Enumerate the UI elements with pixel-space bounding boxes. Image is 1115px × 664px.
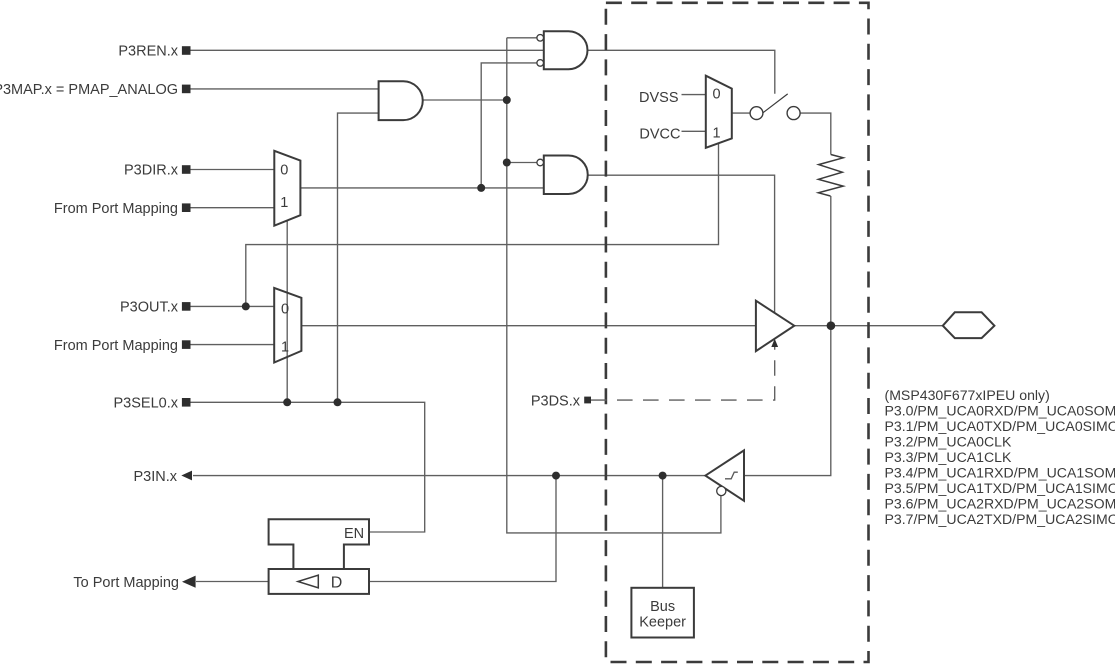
svg-text:P3MAP.x = PMAP_ANALOG: P3MAP.x = PMAP_ANALOG [0,82,178,98]
junction node A9 (P3IN / D latch) [552,472,560,480]
bubble U1 top input [537,35,544,42]
junction node A1 (AND2 out / bus) [503,96,511,104]
svg-text:1: 1 [281,339,289,355]
svg-text:From Port Mapping: From Port Mapping [54,338,178,354]
svg-text:1: 1 [713,125,721,141]
svg-text:P3.1/PM_UCA0TXD/PM_UCA0SIMO: P3.1/PM_UCA0TXD/PM_UCA0SIMO [885,418,1115,434]
terminal square From Port Mapping 1 [182,203,191,212]
wire P3OUT.x to mux M2 input 0 [191,305,275,307]
wire AND U1 bottom input from DIR line [481,63,537,188]
terminal square P3REN.x [182,46,191,55]
pin function text block [885,387,1115,527]
terminal square P3SEL0.x [182,398,191,407]
junction node A2 (bus / U3 input) [503,159,511,167]
terminal square P3OUT.x [182,302,191,311]
wire latch D output to port mapping [196,581,269,583]
wire From Port Mapping to mux M2 input 1 [191,344,275,346]
wire switch S1 to resistor R1 [800,113,831,154]
svg-text:0: 0 [281,301,289,317]
arrowhead To Port Mapping [182,576,196,588]
wire P3REN.x to AND U1 and output to switch control [191,50,775,93]
svg-text:P3.2/PM_UCA0CLK: P3.2/PM_UCA0CLK [885,433,1012,449]
mux M2 (P3OUT select) [274,288,301,363]
hysteresis symbol in U5 [725,472,738,479]
svg-text:P3OUT.x: P3OUT.x [120,300,179,316]
switch S1 lever [763,94,788,113]
wire AND U2 bottom input from P3SEL0 node [338,113,379,402]
wire DVSS to mux M3 input 0 [682,94,706,96]
terminal square P3DIR.x [182,165,191,174]
svg-text:P3.3/PM_UCA1CLK: P3.3/PM_UCA1CLK [885,449,1012,465]
mux M1 (P3DIR select) [274,151,300,226]
svg-text:P3.7/PM_UCA2TXD/PM_UCA2SIMO: P3.7/PM_UCA2TXD/PM_UCA2SIMO [885,511,1115,527]
latch L1 D section [269,569,369,594]
wire to bus keeper [662,476,664,588]
svg-text:P3.5/PM_UCA1TXD/PM_UCA1SIMO: P3.5/PM_UCA1TXD/PM_UCA1SIMO [885,480,1115,496]
bus keeper B1 [631,588,694,638]
wire select line from P3SEL0 node to mux M1 and M2 [286,220,288,402]
junction node A6 (P3SEL0 / U2 input) [334,398,342,406]
svg-text:P3DS.x: P3DS.x [531,394,581,410]
pad hexagon P1 [943,312,995,338]
wire mux M2 output to driver U4 [301,325,756,327]
svg-text:P3IN.x: P3IN.x [133,469,177,485]
svg-text:DVSS: DVSS [639,90,679,106]
wire From Port Mapping to mux M1 input 1 [191,207,275,209]
svg-text:P3.4/PM_UCA1RXD/PM_UCA1SOMI: P3.4/PM_UCA1RXD/PM_UCA1SOMI [885,464,1115,480]
switch S1 contact circle left [750,107,763,120]
svg-text:(MSP430F677xIPEU only): (MSP430F677xIPEU only) [885,387,1050,403]
wire resistor R1 to pad node and schmitt U5 input [744,196,831,476]
svg-text:0: 0 [280,162,288,178]
junction node A5 (P3SEL0 / M1 select) [283,398,291,406]
wire DVCC to mux M3 input 1 [682,130,706,132]
wire P3SEL0.x to latch EN input [191,402,425,532]
mux M3 (DVSS/DVCC select) [706,76,732,148]
wire AND U1 top input [507,37,537,39]
schmitt trigger U5 input buffer [705,450,744,500]
svg-text:P3.0/PM_UCA0RXD/PM_UCA0SOMI: P3.0/PM_UCA0RXD/PM_UCA0SOMI [885,402,1115,418]
and-gate U3 (direction, one inverted input) [544,156,588,195]
svg-text:Keeper: Keeper [639,615,686,631]
wire AND U3 output to driver enable [588,175,775,313]
wire P3DIR.x to mux M1 input 0 [191,169,275,171]
svg-text:P3.6/PM_UCA2RXD/PM_UCA2SOMI: P3.6/PM_UCA2RXD/PM_UCA2SOMI [885,495,1115,511]
junction node A3 (dir line) [477,184,485,192]
junction node A8 (P3IN / bus keeper) [659,472,667,480]
svg-text:P3SEL0.x: P3SEL0.x [114,396,179,412]
latch L1 clock triangle [298,575,318,588]
wire P3IN.x from schmitt U5 output [193,475,705,477]
wire node A vertical bus to schmitt enable bubble [507,38,721,533]
latch L1 EN section [269,519,369,569]
svg-text:EN: EN [344,526,364,542]
arrowhead P3IN.x [181,471,192,481]
terminal square From Port Mapping 2 [182,340,191,349]
junction node A4 (P3OUT feedback) [242,302,250,310]
wire driver U4 output to pad [794,325,943,327]
svg-text:0: 0 [713,86,721,102]
wire pad sense to latch D input [370,476,556,582]
svg-text:From Port Mapping: From Port Mapping [54,201,178,217]
wire P3MAP.x to AND U2 top input [191,88,379,90]
dashed wire P3DS.x to driver drive-strength input [591,347,775,400]
wire mux M1 output to AND U3 bottom input [300,187,543,189]
svg-text:D: D [331,575,343,592]
svg-text:P3DIR.x: P3DIR.x [124,163,179,179]
bubble U3 top input [537,159,544,166]
terminal square P3DS.x [584,397,591,404]
and-gate U1 (P3REN, two inverted inputs) [544,31,588,69]
arrowhead P3DS into driver U4 [771,339,778,347]
svg-text:P3REN.x: P3REN.x [118,44,178,60]
wire P3OUT feedback to mux M3 select [246,144,719,307]
resistor R1 [818,155,843,197]
dashed boundary box [606,3,869,662]
terminal square P3MAP.x [182,85,191,94]
and-gate U2 (PMAP_ANALOG) [379,81,423,120]
bubble U5 enable [717,486,726,495]
wire mux M3 output to switch S1 [732,112,750,114]
svg-text:Bus: Bus [650,599,675,615]
junction node A7 (pad line) [827,321,836,330]
svg-text:1: 1 [280,195,288,211]
switch S1 contact circle right [787,107,800,120]
svg-text:DVCC: DVCC [639,126,680,142]
bubble U1 bottom input [537,60,544,67]
wire AND U3 top input [507,162,537,164]
driver U4 output buffer triangle [756,301,794,351]
wire AND U2 output to node A [423,99,507,101]
svg-text:To Port Mapping: To Port Mapping [73,575,179,591]
